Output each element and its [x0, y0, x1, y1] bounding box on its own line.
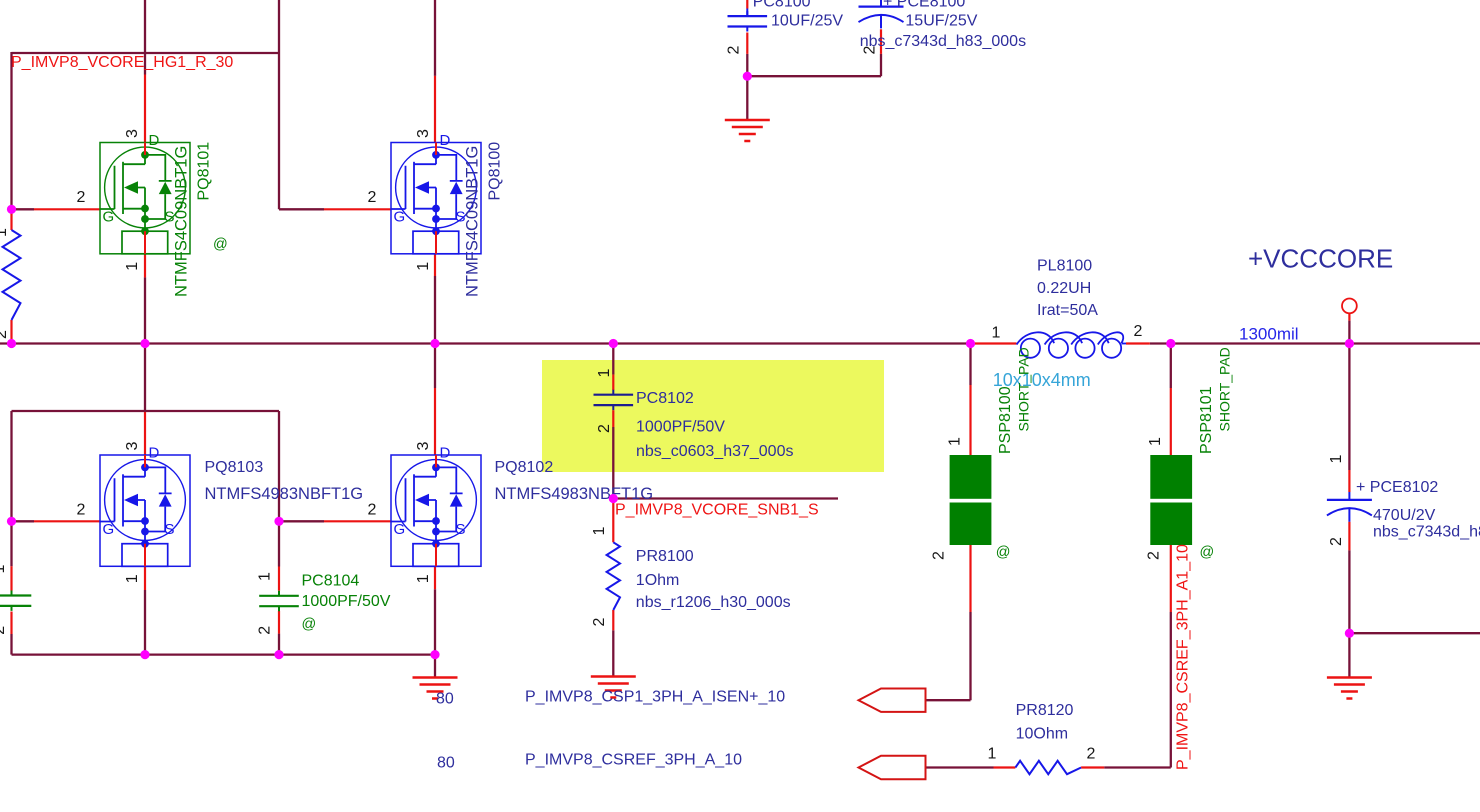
node bottom rail / PQ8103 source junction [140, 650, 149, 659]
wire PQ8101 gate segment [12, 208, 35, 210]
pin PC8102 2 [612, 410, 614, 427]
svg-text:G: G [103, 521, 115, 538]
svg-text:2: 2 [596, 424, 613, 433]
capacitor PC8100 [725, 0, 843, 55]
wire PSP8101 pin2 down to PR8120 row [1170, 612, 1172, 768]
pin PSP8100 2 [969, 545, 971, 612]
node rail / PSP8101 junction [1166, 339, 1175, 348]
resistor PR8100 [591, 527, 791, 627]
short-pad PSP8100 [930, 347, 1031, 560]
svg-text:1Ohm: 1Ohm [636, 572, 680, 589]
transistor PQ8101 [76, 129, 227, 297]
capacitor left edge (cut) [0, 565, 31, 635]
capacitor PCE8100 [859, 0, 1027, 55]
svg-text:PR8100: PR8100 [636, 548, 694, 565]
node phase rail / PSP8100 junction [966, 339, 975, 348]
wire PC8102 column dark parts [612, 344, 614, 375]
svg-text:nbs_c7343d_h83_000s: nbs_c7343d_h83_000s [860, 33, 1026, 50]
node phase rail / PQ8101-PQ8103 junction [140, 339, 149, 348]
svg-text:2: 2 [591, 618, 608, 627]
svg-text:PSP8101: PSP8101 [1198, 386, 1215, 454]
svg-text:1: 1 [124, 574, 141, 583]
wire net P_IMVP8_VCORE_SNB1_S horizontal [613, 497, 838, 499]
svg-text:D: D [440, 445, 451, 462]
wire PC8104 column dark parts [278, 521, 280, 566]
wire vertical x=145 from top edge [144, 0, 146, 75]
svg-text:1000PF/50V: 1000PF/50V [636, 418, 725, 435]
pin PQ8102 source [434, 566, 436, 589]
svg-text:PQ8100: PQ8100 [487, 142, 504, 201]
wire PQ8102 source to bottom rail [434, 589, 436, 654]
capacitor PCE8102 [1327, 455, 1480, 547]
pin PQ8100 source [434, 254, 436, 276]
svg-text:P_IMVP8_CSREF_3PH_A_10: P_IMVP8_CSREF_3PH_A_10 [525, 752, 742, 769]
node PQ8102 gate junction [274, 517, 283, 526]
wire gate rail row2 y=411 [12, 410, 280, 412]
svg-text:1: 1 [1328, 455, 1345, 464]
wire PQ8100 source to rail [434, 276, 436, 344]
svg-text:2: 2 [930, 551, 947, 560]
svg-text:3: 3 [415, 442, 432, 451]
svg-text:SHORT_PAD: SHORT_PAD [1217, 347, 1233, 431]
svg-text:nbs_c0603_h37_000s: nbs_c0603_h37_000s [636, 443, 793, 460]
pin PCE8102 2 [1348, 522, 1350, 551]
svg-text:10Ohm: 10Ohm [1016, 726, 1068, 743]
svg-text:0.22UH: 0.22UH [1037, 280, 1091, 297]
capacitor PC8102 (highlighted) [594, 369, 794, 461]
svg-text:2: 2 [76, 189, 85, 206]
svg-text:470U/2V: 470U/2V [1373, 507, 1436, 524]
wire top-left horizontal net P_IMVP8_VCORE_HG1_R_30 [12, 52, 280, 54]
pin PL8100 2 [1126, 342, 1150, 344]
wire PCE8102 ground drop [1348, 633, 1350, 677]
pin PQ8103 gate [34, 520, 100, 522]
pin PQ8103 source [144, 566, 146, 590]
resistor left edge (cut) [0, 228, 21, 339]
wire left column above cap / below cap [10, 634, 12, 655]
pin PQ8100 gate [324, 208, 391, 210]
wire top cap PC8100 below pin2 [746, 54, 748, 76]
node PCE8102 ground junction [1345, 629, 1354, 638]
svg-text:D: D [149, 132, 160, 149]
node bottom rail / PQ8102 source junction [430, 650, 439, 659]
svg-text:NTMFS4983NBFT1G: NTMFS4983NBFT1G [205, 485, 364, 503]
svg-text:S: S [165, 521, 175, 538]
svg-text:PQ8102: PQ8102 [495, 459, 554, 476]
wire PCE8102 pin2 dark part [1348, 550, 1350, 633]
pin PCE8102 1 [1348, 470, 1350, 492]
capacitor PC8104 [257, 572, 391, 635]
svg-text:PQ8103: PQ8103 [205, 459, 264, 476]
transistor PQ8100 [367, 129, 503, 297]
svg-text:1: 1 [988, 746, 997, 763]
pin PCE8100 2 [880, 29, 882, 54]
wire PC8100 junction to ground [746, 76, 748, 120]
pin PC8102 1 [612, 375, 614, 390]
pin +VCCCORE port stub [1348, 313, 1350, 320]
ground top [725, 120, 770, 141]
svg-text:80: 80 [436, 691, 454, 708]
svg-text:+ PCE8100: + PCE8100 [883, 0, 965, 11]
pin left resistor 2 [10, 320, 12, 340]
pin PSP8100 1 [969, 385, 971, 455]
wire left vertical x=11.5 top [10, 52, 12, 209]
svg-text:1300mil: 1300mil [1239, 325, 1299, 344]
svg-text:10UF/25V: 10UF/25V [771, 13, 843, 30]
ground PQ8102 source [413, 678, 458, 699]
svg-text:NTMFS4C09NBT1G: NTMFS4C09NBT1G [173, 146, 191, 297]
svg-text:@: @ [1200, 545, 1215, 561]
svg-text:PC8102: PC8102 [636, 390, 694, 407]
off-page connector P_IMVP8_CSREF [859, 756, 926, 779]
pin PC8104 2 [278, 611, 280, 634]
svg-text:P_IMVP8_CSP1_3PH_A_ISEN+_10: P_IMVP8_CSP1_3PH_A_ISEN+_10 [525, 689, 785, 706]
pin left resistor 1 [10, 211, 12, 230]
node phase rail / PQ8100-PQ8102 junction [430, 339, 439, 348]
wire PQ8102 gate segment [279, 520, 324, 522]
svg-text:1: 1 [415, 262, 432, 271]
svg-text:D: D [440, 132, 451, 149]
svg-text:P_IMVP8_VCORE_HG1_R_30: P_IMVP8_VCORE_HG1_R_30 [11, 54, 233, 71]
svg-text:2: 2 [257, 626, 274, 635]
svg-text:+ PCE8102: + PCE8102 [1356, 479, 1438, 496]
svg-text:@: @ [302, 617, 317, 633]
svg-text:2: 2 [0, 626, 8, 635]
wire PQ8103 source to bottom rail [144, 590, 146, 655]
pin PQ8101 gate [34, 208, 100, 210]
pin PQ8101 source [144, 254, 146, 278]
wire PQ8103 drain upper dark part [144, 344, 146, 413]
pin PL8100 1 [974, 342, 1017, 344]
pin PSP8101 1 [1170, 388, 1172, 455]
svg-text:nbs_c7343d_h83_000s: nbs_c7343d_h83_000s [1373, 524, 1480, 541]
wire PSP8100 pin1 dark part [969, 344, 971, 386]
svg-text:1: 1 [596, 369, 613, 378]
svg-text:2: 2 [367, 189, 376, 206]
pin PR8100 2 [612, 610, 614, 630]
svg-text:1: 1 [0, 228, 10, 237]
wire PSP8101 pin1 dark part [1170, 344, 1172, 389]
svg-text:2: 2 [1328, 537, 1345, 546]
svg-text:1: 1 [591, 527, 608, 536]
svg-text:P_IMVP8_CSREF_3PH_A1_10: P_IMVP8_CSREF_3PH_A1_10 [1175, 544, 1192, 770]
power port +VCCCORE [1248, 244, 1393, 314]
yellow highlight box around PC8102 [542, 360, 884, 472]
ground PR8100 [591, 677, 636, 698]
svg-text:1: 1 [257, 572, 274, 581]
wire vertical x=279 gate drop [278, 411, 280, 521]
node PC8102 / PR8100 junction [609, 494, 618, 503]
transistor PQ8103 [76, 442, 363, 584]
svg-text:3: 3 [124, 442, 141, 451]
svg-text:1: 1 [0, 565, 8, 574]
wire PQ8102 drain upper dark part [434, 344, 436, 389]
svg-text:2: 2 [725, 46, 742, 55]
pin PQ8102 drain [434, 388, 436, 455]
svg-text:PR8120: PR8120 [1016, 702, 1074, 719]
svg-text:2: 2 [1146, 551, 1163, 560]
svg-text:@: @ [213, 237, 228, 253]
svg-text:+VCCCORE: +VCCCORE [1248, 244, 1393, 274]
svg-text:PL8100: PL8100 [1037, 258, 1092, 275]
wire bottom-right horizontal from junction [1349, 632, 1480, 634]
off-page connector P_IMVP8_CSP1 [859, 689, 926, 712]
wire PQ8100 gate segment [279, 208, 324, 210]
svg-text:1000PF/50V: 1000PF/50V [302, 593, 391, 610]
svg-text:1: 1 [415, 574, 432, 583]
svg-text:PSP8100: PSP8100 [997, 386, 1014, 454]
svg-text:SHORT_PAD: SHORT_PAD [1016, 347, 1032, 431]
wire offpage2 to PR8120 [926, 766, 994, 768]
pin PR8100 1 [612, 499, 614, 543]
pin PC8100 2 [746, 33, 748, 54]
short-pad PSP8101 [1146, 347, 1233, 560]
pin PQ8100 drain [434, 76, 436, 143]
svg-text:G: G [103, 209, 115, 226]
node +VCCCORE rail junction [1345, 339, 1354, 348]
svg-text:1: 1 [1147, 437, 1164, 446]
pin left cap 2 [10, 612, 12, 635]
svg-text:2: 2 [1134, 323, 1143, 340]
svg-text:1: 1 [124, 262, 141, 271]
svg-text:@: @ [996, 545, 1011, 561]
node PQ8103 gate junction [7, 517, 16, 526]
svg-text:PC8104: PC8104 [302, 572, 360, 589]
resistor PR8120 [988, 702, 1096, 774]
svg-text:G: G [394, 521, 406, 538]
svg-text:1: 1 [992, 325, 1001, 342]
node PC8100 / PCE8100 ground junction [743, 72, 752, 81]
wire vertical x=279 from top edge down to PQ8100 gate row [278, 0, 280, 209]
pin PQ8103 drain [144, 412, 146, 455]
svg-text:2: 2 [0, 330, 10, 339]
svg-text:3: 3 [124, 129, 141, 138]
transistor PQ8102 [367, 442, 653, 584]
wire vertical x=435 from top edge (PQ8100 drain net) [434, 0, 436, 76]
svg-text:80: 80 [437, 755, 455, 772]
wire PR8100 bottom to ground [612, 630, 614, 676]
wire PQ8101 source to rail [144, 277, 146, 343]
wire bottom rail y=654.6 [12, 653, 436, 655]
wire main phase rail y=343.5 [0, 342, 974, 344]
pin PC8100 1 [746, 0, 748, 9]
svg-text:PQ8101: PQ8101 [196, 142, 213, 201]
pin PC8104 1 [278, 567, 280, 591]
node bottom rail / PC8104 junction [274, 650, 283, 659]
svg-text:15UF/25V: 15UF/25V [905, 13, 977, 30]
pin left cap 1 [10, 566, 12, 590]
inductor PL8100 [992, 258, 1143, 391]
svg-text:D: D [149, 445, 160, 462]
svg-text:2: 2 [367, 502, 376, 519]
svg-text:S: S [456, 521, 466, 538]
svg-text:PC8100: PC8100 [753, 0, 811, 11]
svg-text:P_IMVP8_VCORE_SNB1_S: P_IMVP8_VCORE_SNB1_S [615, 502, 819, 519]
pin PQ8102 gate [324, 520, 391, 522]
wire PCE8102 pin1 dark part [1348, 344, 1350, 471]
svg-text:NTMFS4983NBFT1G: NTMFS4983NBFT1G [495, 485, 654, 503]
pin PQ8101 drain [144, 75, 146, 143]
wire PQ8103 gate segment [12, 520, 35, 522]
node phase rail / PC8102 junction [609, 339, 618, 348]
svg-text:G: G [394, 209, 406, 226]
svg-text:NTMFS4C09NBT1G: NTMFS4C09NBT1G [464, 146, 482, 297]
svg-text:2: 2 [1087, 746, 1096, 763]
svg-text:1: 1 [946, 437, 963, 446]
ground PCE8102 [1327, 678, 1372, 699]
svg-text:nbs_r1206_h30_000s: nbs_r1206_h30_000s [636, 594, 791, 611]
pin PR8120 2 [1081, 766, 1104, 768]
pin PR8120 1 [994, 766, 1016, 768]
node left resistor / rail junction [7, 339, 16, 348]
wire PSP8100 pin2 down to offpage row [969, 612, 971, 700]
wire +VCCCORE port drop [1348, 321, 1350, 344]
pin PSP8101 2 [1170, 545, 1172, 612]
node PQ8101 gate junction [7, 205, 16, 214]
wire PQ8102 ground drop [434, 655, 436, 678]
svg-text:2: 2 [76, 502, 85, 519]
wire junction to PCE8100 bottom [747, 75, 881, 77]
wire left vertical x=11.5 middle [10, 411, 12, 566]
svg-text:Irat=50A: Irat=50A [1037, 302, 1098, 319]
svg-text:3: 3 [415, 129, 432, 138]
